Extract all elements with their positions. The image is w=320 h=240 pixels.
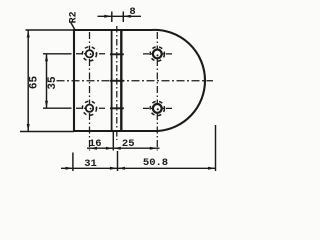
svg-text:R2: R2 bbox=[69, 11, 80, 23]
dimension 35 line bbox=[43, 54, 72, 108]
dimension 31-50.8 line bbox=[61, 125, 216, 171]
text 35 bbox=[47, 76, 59, 90]
svg-text:35: 35 bbox=[47, 76, 59, 90]
dimension 65 line bbox=[20, 30, 74, 132]
dimension 8 arrows bbox=[104, 15, 131, 18]
text 31 bbox=[84, 158, 97, 170]
plate outline bbox=[74, 30, 205, 131]
hole row centerline top-right bbox=[143, 53, 172, 55]
dimension 65 arrows bbox=[27, 30, 30, 132]
hole column centerline left bbox=[89, 32, 91, 151]
hole row centerline bottom-left bbox=[76, 107, 105, 109]
text 65 bbox=[29, 76, 41, 90]
svg-text:8: 8 bbox=[129, 6, 135, 18]
knuckle bar middle bbox=[110, 80, 124, 82]
svg-text:25: 25 bbox=[122, 138, 135, 150]
hole column centerline right bbox=[156, 32, 158, 151]
text 16 bbox=[89, 138, 102, 150]
svg-text:16: 16 bbox=[89, 138, 102, 150]
knuckle bar top bbox=[110, 53, 124, 55]
knuckle line right bbox=[120, 30, 122, 131]
hole row centerline bottom-right bbox=[143, 107, 172, 109]
text R2 bbox=[69, 11, 80, 23]
text 50.8 bbox=[143, 157, 168, 169]
svg-text:31: 31 bbox=[84, 158, 97, 170]
knuckle centerline bbox=[116, 26, 118, 140]
svg-text:65: 65 bbox=[29, 76, 41, 90]
hole top-right bbox=[150, 47, 164, 61]
text 8 bbox=[129, 6, 135, 18]
hole top-left bbox=[82, 47, 96, 61]
horizontal centerline bbox=[57, 80, 214, 82]
knuckle line left bbox=[111, 30, 113, 131]
hole bottom-right bbox=[150, 101, 164, 115]
leader R2 bbox=[71, 23, 76, 31]
hole bottom-left bbox=[82, 101, 96, 115]
dimension 35 arrows bbox=[45, 54, 48, 108]
dimension 8 line bbox=[98, 12, 142, 23]
svg-text:50.8: 50.8 bbox=[143, 157, 168, 169]
text 25 bbox=[122, 138, 135, 150]
dimension 16-25 line bbox=[87, 131, 160, 151]
dimension 31-50.8 arrows bbox=[65, 167, 215, 170]
dimension 16-25 arrows bbox=[90, 147, 158, 150]
hole row centerline top-left bbox=[76, 53, 105, 55]
knuckle bar bottom bbox=[110, 107, 124, 109]
